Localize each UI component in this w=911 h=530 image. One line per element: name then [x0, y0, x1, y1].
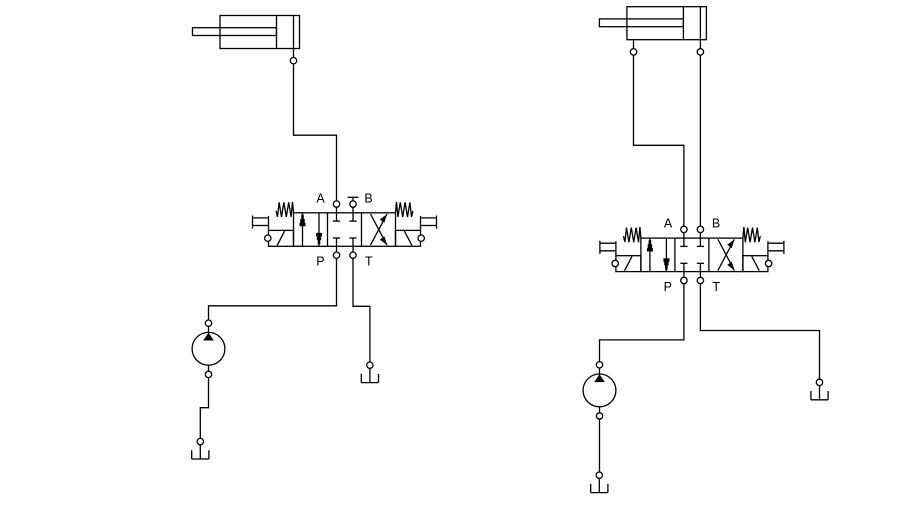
valve V1 right pilot box — [396, 230, 421, 246]
valve V2 left return spring — [624, 227, 641, 242]
valve V2 port B stub and node — [699, 229, 701, 238]
valve V1 right plunger actuator — [436, 216, 438, 229]
valve V2 right position crossed arrows (P-B, A-T) — [718, 239, 735, 270]
svg-text:A: A — [664, 217, 673, 231]
wire W7: valve 2 port P to pump 2 outlet — [600, 281, 684, 365]
valve V2 right return spring — [743, 227, 760, 242]
wire W6: cylinder 2 right port to valve 2 port B — [699, 52, 701, 229]
valve V1 port T stub and node — [352, 246, 354, 255]
valve V2 left plunger actuator — [599, 241, 601, 254]
wire W5: cylinder 2 left port to valve 2 port A — [634, 52, 684, 229]
wire W2: valve 1 port P to pump 1 outlet — [209, 255, 337, 323]
tank T4 (reservoir) — [811, 379, 828, 400]
cylinder CYL1 (double-acting, rod to left) — [193, 16, 300, 64]
wire W3: valve 1 port T to tank — [353, 255, 370, 365]
svg-text:P: P — [664, 280, 672, 294]
svg-text:T: T — [712, 280, 720, 294]
valve V2 (4/3-way directional valve, closed centre) — [600, 217, 784, 294]
svg-text:P: P — [316, 255, 324, 269]
valve V1 centre position blocked ports — [336, 213, 338, 221]
valve V2 left pilot box — [616, 256, 641, 272]
valve V1 left return spring — [276, 202, 293, 217]
valve V1 port B stub and node — [348, 196, 359, 198]
svg-text:B: B — [712, 217, 720, 231]
svg-text:A: A — [316, 191, 325, 205]
valve V1 port A stub and node — [336, 204, 338, 213]
valve V2 body boxes — [641, 238, 743, 272]
pump PU2 (fixed displacement hydraulic pump) — [583, 362, 616, 420]
svg-text:T: T — [365, 255, 373, 269]
valve V1 (4/3-way directional valve, closed centre) — [253, 191, 437, 268]
valve V1 left pilot box — [269, 230, 294, 246]
tank T3 (reservoir) — [591, 472, 608, 493]
valve V2 left position arrows (P-A, B-T) — [649, 238, 651, 272]
svg-text:B: B — [364, 191, 372, 205]
valve V2 port A stub and node — [683, 229, 685, 238]
valve V2 port P stub and node — [683, 272, 685, 281]
wire W9: pump 2 inlet to tank — [599, 416, 601, 475]
valve V1 left position arrows (P-A, B-T) — [302, 213, 304, 247]
valve V1 left plunger actuator — [252, 216, 254, 229]
tank T2 (reservoir) — [361, 362, 378, 383]
valve V2 right plunger actuator — [783, 241, 785, 254]
wire W4: pump 1 inlet to tank — [200, 374, 208, 441]
valve V1 body boxes — [294, 213, 396, 247]
tank T1 (reservoir) — [192, 438, 209, 459]
valve V1 right return spring — [396, 202, 413, 217]
valve V1 port P stub and node — [336, 246, 338, 255]
valve V2 right pilot box — [743, 256, 768, 272]
valve V2 centre position blocked ports — [683, 238, 685, 246]
wire W1: cylinder 1 port to valve 1 port A — [294, 61, 337, 204]
cylinder CYL2 (double-acting, rod to left) — [599, 7, 706, 55]
pump PU1 (fixed displacement hydraulic pump) — [192, 320, 225, 378]
valve V2 port T stub and node — [699, 272, 701, 281]
valve V1 right position crossed arrows (P-B, A-T) — [371, 214, 388, 245]
wire W8: valve 2 port T to tank — [700, 281, 819, 383]
